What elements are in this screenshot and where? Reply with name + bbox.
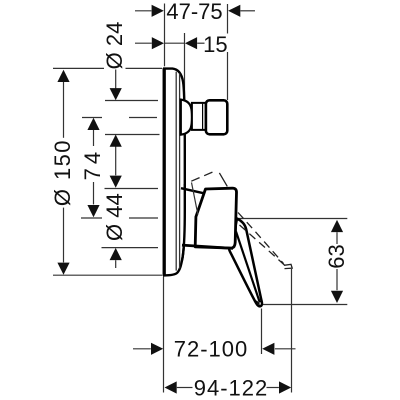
rotated handle left edge thin line	[192, 183, 198, 215]
dim 15 tail right	[197, 42, 204, 44]
svg-text:63: 63	[324, 244, 349, 268]
arrow 47-75 right	[228, 5, 240, 17]
extension line plate back bottom x=163.8	[163, 277, 165, 393]
dim 94-122 tail left	[177, 387, 193, 389]
lever crease edge	[236, 232, 260, 303]
dia44 top extension line	[105, 188, 159, 190]
arrow 63 top	[331, 220, 343, 232]
dim 63 line upper	[336, 232, 338, 244]
dim 72-100 tail right	[275, 348, 296, 350]
lever tip reference line right	[262, 304, 347, 306]
extension line lever tip x=261.8	[261, 309, 263, 355]
arrow dia24 top	[110, 88, 122, 100]
svg-text:47-75: 47-75	[166, 0, 222, 24]
svg-text:74: 74	[80, 148, 105, 180]
plate crease line 2	[179, 74, 181, 269]
dim 15 line A-B	[165, 42, 185, 44]
dia150 dim line lower	[63, 208, 65, 263]
escutcheon plate body	[164, 69, 185, 276]
handle bottom edge	[182, 245, 233, 248]
lever tip tick	[256, 301, 259, 305]
knob joint line	[202, 104, 204, 130]
arrow 15 left	[152, 37, 164, 49]
arrow 63 bottom	[331, 291, 343, 303]
extension line A x=164	[164, 4, 166, 67]
arrow 74 top	[87, 118, 99, 130]
dia44 bottom extension line	[102, 247, 159, 249]
arrow 74 bottom	[87, 205, 99, 217]
dim 74 line upper	[93, 130, 95, 146]
dashed rotated handle top edge	[191, 171, 216, 182]
extension line dashed tip x=291.3	[291, 269, 293, 393]
dim 47-75 tail right	[240, 10, 255, 12]
knob neck dome	[181, 100, 192, 135]
handle axis reference line right	[239, 218, 348, 220]
svg-text:72-100: 72-100	[174, 337, 249, 362]
knob cap	[206, 100, 227, 134]
dim 72-100 tail left	[133, 348, 151, 350]
dim 15 tail left	[135, 42, 152, 44]
dim 47-75 tail left	[135, 10, 151, 12]
dia24 dim line upper	[115, 70, 117, 89]
dia150 top extension line	[53, 67, 162, 69]
plate back edge	[163, 68, 166, 276]
rotated handle right edge	[219, 173, 227, 187]
handle axis line left	[81, 217, 158, 219]
extension line B x=184	[184, 33, 186, 99]
arrow 94-122 left	[165, 381, 177, 393]
knob bottom extension line	[105, 134, 160, 136]
arrow 72-100 left	[151, 343, 163, 355]
dim 94-122 tail right	[267, 387, 279, 389]
dim 63 line lower	[336, 269, 338, 290]
arrow dia24 bottom	[110, 135, 122, 147]
arrow dia150 bottom	[57, 263, 69, 275]
extension line C x=227.5	[227, 4, 229, 100]
dim 74 line lower	[93, 182, 95, 204]
dia44 dim tail bottom	[115, 260, 117, 268]
lever blade	[229, 219, 262, 307]
arrow dia150 top	[57, 70, 69, 82]
rotated lever tip	[284, 264, 292, 268]
knob cylinder	[192, 103, 206, 130]
svg-text:Ø 44: Ø 44	[102, 193, 127, 241]
arrow 72-100 right	[262, 343, 274, 355]
dia150 dim line upper	[63, 82, 65, 138]
dashed rotated lever lower edge	[240, 225, 287, 267]
svg-text:94-122: 94-122	[194, 375, 269, 400]
arrow dia44 bottom	[110, 248, 122, 260]
cartridge cone top edge	[181, 188, 205, 193]
cartridge cone fill	[181, 188, 205, 247]
dia24-dia44 shared dim line	[115, 147, 117, 176]
knob axis line left	[82, 117, 157, 119]
dashed rotated lever upper edge	[238, 213, 284, 264]
svg-text:Ø 24: Ø 24	[102, 22, 127, 70]
plate crease line 1	[175, 72, 177, 271]
dia150 bottom extension line	[53, 274, 162, 276]
arrow 94-122 right	[279, 381, 291, 393]
handle body	[195, 188, 236, 248]
arrow 15 right	[185, 37, 197, 49]
arrow dia44 top	[110, 176, 122, 188]
knob top extension line	[105, 100, 158, 102]
plate front contour over cone	[182, 184, 185, 260]
arrow 47-75 left	[152, 5, 164, 17]
svg-text:Ø 150: Ø 150	[50, 139, 75, 206]
svg-text:15: 15	[203, 32, 227, 57]
